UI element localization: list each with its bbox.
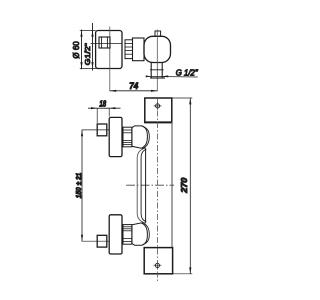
- riser tube left line: [137, 148, 146, 223]
- riser tube right line: [145, 148, 147, 223]
- outlet pipe (plan): [150, 62, 152, 78]
- bottom escutcheon: [109, 215, 122, 254]
- knob (plan): [144, 36, 171, 62]
- dim Ø60 arrow up: [80, 30, 82, 36]
- dim 74 arrow right: [151, 90, 157, 92]
- wall bar bottom cap: [144, 248, 172, 274]
- ribbed connector (plan): [125, 40, 133, 59]
- plain connector (plan): [133, 38, 145, 61]
- top dome outer shell: [142, 126, 149, 148]
- horizontal centerline: [126, 184, 174, 186]
- wall bar top cap: [145, 98, 172, 122]
- knob button: [155, 31, 161, 36]
- svg-text:Ø 60: Ø 60: [71, 41, 81, 58]
- bottom centerline: [82, 240, 110, 242]
- top wall square: [97, 124, 107, 136]
- valve centerline: [109, 27, 111, 92]
- dim 74 line: [110, 90, 158, 92]
- dim 270 line: [189, 98, 191, 274]
- dim G1/2 arrow down: [91, 62, 93, 68]
- dim Ø60 line: [81, 30, 83, 70]
- top escutcheon: [109, 117, 122, 156]
- dim 18 extension lines: [96, 108, 98, 123]
- bottom dome outer shell: [142, 223, 149, 245]
- bar right edge: [171, 122, 173, 247]
- dim 18 arrows: [91, 107, 97, 109]
- svg-text:18: 18: [99, 99, 106, 108]
- svg-text:G 1/2": G 1/2": [176, 69, 199, 78]
- knob centerline: [156, 30, 158, 92]
- svg-text:270: 270: [180, 177, 189, 194]
- svg-text:G1/2": G1/2": [83, 43, 92, 65]
- bottom dome: [132, 223, 147, 245]
- svg-text:74: 74: [129, 81, 138, 91]
- dim 74 arrow left: [110, 90, 116, 92]
- dim 270 extension top: [172, 97, 192, 99]
- top cap bottom thick edge: [144, 121, 172, 123]
- dim extension top: [80, 29, 96, 31]
- top centerline: [82, 129, 110, 131]
- dim G1/2 arrow up: [91, 30, 93, 36]
- riser tube inner line: [141, 149, 146, 221]
- mixer body (plan): [96, 31, 122, 69]
- dim extension bottom: [80, 67, 99, 69]
- G 1/2 arrows line: [146, 75, 198, 78]
- thread square G1/2 (plan): [99, 37, 110, 48]
- top mounting hole: [156, 104, 160, 108]
- leader G1/2: [91, 43, 122, 45]
- pipe flange line: [150, 69, 164, 71]
- dim 18 line: [88, 107, 121, 109]
- dim 150±21 line: [81, 130, 83, 241]
- vertical centerline: [156, 99, 158, 282]
- top dome: [132, 126, 147, 148]
- dim 270 extension bottom: [173, 273, 193, 275]
- bottom wall square: [97, 235, 107, 247]
- bottom nut: [123, 225, 132, 245]
- bottom mounting hole: [155, 263, 159, 267]
- top nut: [123, 127, 132, 147]
- svg-text:150 ± 21: 150 ± 21: [74, 173, 83, 199]
- dim G1/2 line: [92, 23, 94, 71]
- dim Ø60 arrow down: [80, 62, 82, 68]
